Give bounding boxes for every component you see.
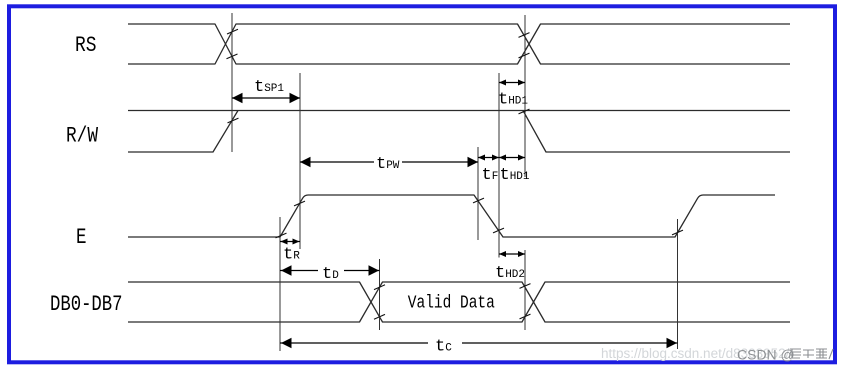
svg-text:tSP1: tSP1 [254, 78, 284, 97]
svg-text:tHD1: tHD1 [498, 91, 528, 110]
svg-text:tR: tR [283, 246, 300, 265]
svg-text:E: E [76, 225, 87, 250]
svg-text:tF: tF [482, 166, 499, 185]
svg-text:R/W: R/W [66, 124, 99, 149]
svg-text:Valid Data: Valid Data [408, 293, 495, 314]
svg-text:DB0-DB7: DB0-DB7 [50, 292, 123, 317]
svg-text:CSDN @: CSDN @ [737, 347, 795, 363]
svg-text:tHD2: tHD2 [495, 264, 525, 283]
svg-text:tD: tD [322, 265, 339, 284]
svg-text:tC: tC [435, 338, 452, 357]
svg-text:tPW: tPW [376, 155, 400, 174]
svg-text:RS: RS [75, 33, 97, 58]
